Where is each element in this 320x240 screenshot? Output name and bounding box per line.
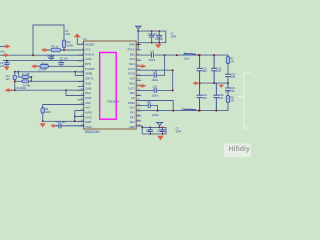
rail row 71.8 — [15, 71, 84, 73]
capacitor C2 to ground (left) — [4, 61, 9, 67]
svg-text:PGNDP: PGNDP — [85, 67, 94, 71]
wire row 75.3 right + series capacitor C18 — [137, 74, 165, 76]
junction x66 row90.2 — [65, 89, 67, 91]
resistor R8 (vertical) — [226, 96, 230, 103]
junction top rail x199.6 — [199, 54, 201, 56]
resistor R5 on row 50 — [51, 48, 61, 52]
svg-text:2R: 2R — [231, 99, 234, 102]
capacitor C15 (in loop) — [149, 31, 154, 43]
junction rail71.8 at x75.3 — [74, 71, 76, 73]
U1 right pin labels — [128, 43, 136, 129]
heatsink rectangle (magenta) inside U1 — [100, 53, 117, 120]
svg-text:104: 104 — [231, 76, 236, 79]
wire row 110.6 right (OUT2) — [137, 110, 229, 112]
svg-text:C19: C19 — [153, 86, 158, 89]
svg-text:BSA: BSA — [85, 91, 90, 95]
junction x31.3 y77 — [30, 76, 32, 78]
port arrow (left) on row 66.3 — [31, 64, 39, 68]
svg-text:IN2B: IN2B — [85, 120, 91, 124]
ripple loop bottom row — [142, 127, 166, 133]
junction row110.6 x157.5 — [157, 110, 159, 112]
junction row55.1 x176.9 — [176, 54, 178, 56]
svg-text:AX1: AX1 — [85, 106, 90, 110]
junction feed at pin row 44.4 — [137, 43, 139, 45]
wire row 105.6 right + series capacitor C20 — [137, 106, 158, 111]
ground arrow below cap loop — [155, 43, 162, 49]
electrolytic capacitor C7b — [22, 80, 29, 83]
svg-text:104: 104 — [203, 70, 208, 73]
U1 left pin stubs — [78, 44, 83, 126]
svg-text:UTAC: UTAC — [85, 115, 92, 119]
svg-text:GD: GD — [131, 96, 135, 100]
svg-text:C4 104: C4 104 — [47, 54, 55, 57]
junction x172.7 row90.4 — [172, 89, 174, 91]
port arrow (left) on row 90.2 — [5, 88, 13, 92]
VCC power arrow (red, above U1 left) — [74, 33, 81, 37]
wire row 90.4 right + series capacitor C19 — [137, 89, 173, 91]
junction dots ripple loop — [149, 127, 163, 135]
junction gnd rail x214.1 — [213, 82, 215, 84]
svg-text:RuGU3: RuGU3 — [85, 52, 94, 56]
svg-text:TA8210AH: TA8210AH — [84, 130, 100, 134]
wire VCC symbol to rail — [137, 29, 139, 31]
capacitor C4 between row55 and rail60 — [49, 55, 54, 61]
svg-text:104: 104 — [217, 70, 222, 73]
electrolytic capacitor C7a — [22, 76, 29, 79]
resistor R7 (vertical) — [226, 57, 230, 64]
junction row50/frame — [63, 49, 65, 51]
svg-text:1UNL: 1UNL — [85, 57, 92, 61]
svg-text:C18: C18 — [153, 71, 158, 74]
junction gnd rail x228 — [227, 82, 229, 84]
svg-text:2200u: 2200u — [152, 79, 159, 82]
junction row110.6 x198.9 — [198, 110, 200, 112]
output filter column x199.6 top: capacitor C21 — [197, 55, 202, 83]
svg-text:ARM: ARM — [129, 125, 135, 129]
wire row 70.2 right with corner — [137, 70, 173, 90]
watermark band — [224, 144, 251, 158]
junction row110.6 x173.2 — [172, 110, 174, 112]
svg-text:BS2: BS2 — [130, 91, 135, 95]
wire C23 to ground rail — [227, 77, 229, 83]
svg-text:UPB8: UPB8 — [85, 72, 92, 76]
output filter column x199.6 bottom: capacitor C24 — [197, 83, 202, 111]
U1 left pin numbers — [81, 43, 84, 127]
capacitor C19 plates — [154, 88, 156, 92]
svg-text:3UNL: 3UNL — [85, 86, 92, 90]
ground arrow below C2 — [4, 66, 10, 71]
port arrow (right-pointing) row 66 — [139, 64, 147, 68]
ground arrow below row 121.3 — [40, 122, 46, 127]
svg-text:10P: 10P — [146, 129, 151, 132]
junction x31.3 row81.3 — [30, 80, 32, 82]
svg-text:104: 104 — [0, 65, 5, 68]
svg-text:104: 104 — [203, 97, 208, 100]
svg-text:C6 104: C6 104 — [60, 57, 68, 60]
resistor R2 (vertical, in frame) — [62, 40, 66, 48]
Zobel column top: corner from rail 55.1 down — [227, 55, 229, 57]
svg-text:NF1B: NF1B — [128, 72, 135, 76]
svg-text:2u 14B: 2u 14B — [22, 73, 30, 76]
svg-text:C9 100uF: C9 100uF — [16, 87, 27, 90]
svg-text:BS1: BS1 — [130, 52, 135, 56]
wire row 66.3 — [39, 65, 85, 67]
wire C7a right to junction — [29, 77, 32, 81]
svg-text:100R: 100R — [45, 111, 51, 114]
wire row 55.1 right (OUT1) — [137, 54, 229, 56]
vertical link x=14.8 — [14, 72, 16, 90]
svg-text:PX2: PX2 — [130, 115, 135, 119]
junction x172.7 row70.2 — [172, 69, 174, 71]
speaker bracket (gray, right edge) — [239, 72, 251, 128]
junction x74.8 row121.3 — [74, 120, 76, 122]
resistor R6 (vertical on link) — [13, 75, 16, 79]
svg-text:OU2: OU2 — [129, 106, 135, 110]
junction frame bottom — [32, 54, 34, 56]
capacitor C16 (in loop) — [157, 31, 162, 43]
wire row 55.4 (IN2 to pin) — [0, 54, 84, 56]
wire R9 to row 121.3 — [42, 113, 44, 121]
Zobel column bottom: capacitor C26 — [226, 83, 231, 90]
wire row 81.3 — [15, 80, 84, 82]
svg-text:100K: 100K — [67, 44, 74, 48]
junction VCC rail top — [137, 30, 139, 32]
svg-text:2200u: 2200u — [152, 114, 159, 117]
svg-text:GN1: GN1 — [129, 57, 135, 61]
capacitor C20 plates — [148, 104, 150, 108]
wire from R2 to row 50 junction — [63, 48, 65, 51]
svg-text:OUT1: OUT1 — [128, 67, 135, 71]
svg-text:104: 104 — [231, 90, 236, 93]
wire bend rail to C7a — [18, 72, 22, 77]
U1 right pin stubs — [136, 44, 141, 126]
wire row 100.5 right with corner — [137, 101, 174, 111]
input port IN2 (left edge) — [3, 53, 10, 57]
junction dots on cap loop — [151, 30, 160, 43]
ground symbol mid rail 83.1 — [218, 83, 224, 88]
ground arrow below ripple loop — [157, 134, 164, 140]
svg-text:C17: C17 — [150, 50, 155, 53]
capacitor C10 (series) on row 125.8 — [57, 124, 85, 128]
junction x14.8 row90.2 — [14, 89, 16, 91]
junction rail71.8 left — [14, 71, 16, 73]
svg-text:PVCC: PVCC — [128, 47, 135, 51]
power cap loop rails — [138, 31, 166, 43]
wire R8 to rail 110.6 — [227, 103, 229, 111]
wire R7 to C23 — [227, 64, 229, 75]
svg-text:NFB2: NFB2 — [128, 101, 135, 105]
svg-text:10R: 10R — [65, 33, 70, 36]
output filter column x214.1 top: capacitor C22 — [212, 55, 217, 83]
capacitor C6 between rail60 and row66 — [59, 61, 64, 67]
wire C26 to R8 — [227, 91, 229, 96]
wire row 90.2 — [12, 89, 84, 91]
port arrow (right-pointing) at left end of rail 83.1 — [193, 81, 199, 85]
ground rail 83.1 (right) — [200, 82, 228, 84]
svg-text:BYB: BYB — [85, 62, 90, 66]
svg-text:AVR: AVR — [85, 101, 90, 105]
wire bend from rail71.8 to row75.3 — [75, 72, 83, 76]
svg-text:10V: 10V — [6, 78, 11, 81]
svg-text:PX1: PX1 — [130, 111, 135, 115]
port arrow (left) on row 50 — [41, 48, 48, 52]
svg-text:AR1: AR1 — [130, 120, 136, 124]
inductor L1 in row 55.1 — [184, 54, 196, 56]
junction row55.1 x198.9 — [198, 54, 200, 56]
VCC power symbol (blue) top middle — [135, 26, 141, 29]
wire VCC arrow to pin row 45 — [77, 37, 83, 44]
svg-text:R4 1k: R4 1k — [41, 62, 48, 65]
op-amp/power-amp IC U1 body — [84, 41, 137, 129]
svg-text:R5 1k: R5 1k — [52, 46, 59, 49]
svg-text:C15 104: C15 104 — [148, 33, 158, 36]
ground rail row 60.1 — [3, 60, 84, 62]
capacitor C27 in ripple loop — [148, 127, 153, 134]
wire VCC symbol to ripple row — [159, 126, 161, 128]
svg-text:U1: U1 — [83, 37, 87, 41]
junction x14.8 row81.3 — [14, 80, 16, 82]
resistor R9 (vertical) — [41, 108, 44, 114]
svg-text:WTB: WTB — [85, 96, 91, 100]
svg-text:2200P: 2200P — [157, 129, 164, 132]
junction on rail 60.1 — [6, 60, 8, 62]
svg-text:MU1: MU1 — [129, 62, 135, 66]
svg-text:VTAC: VTAC — [85, 125, 92, 129]
svg-text:104: 104 — [219, 97, 224, 100]
U1 left pin labels — [85, 43, 95, 129]
junction ripple row x142.2 — [141, 126, 143, 128]
vertical x74.8 to row 121.3 — [74, 117, 76, 122]
capacitor C17 (series in row 55.1) — [152, 53, 154, 57]
svg-text:TA8210A: TA8210A — [107, 99, 119, 103]
port arrow (right-pointing) row 85.8 — [139, 84, 147, 88]
junction gnd rail x199.6 — [199, 82, 201, 84]
wire row 121.3 — [43, 120, 84, 122]
svg-text:AVR2: AVR2 — [85, 111, 92, 115]
svg-text:GUB: GUB — [85, 81, 91, 85]
junction rail71.8 at x18.4 — [17, 71, 19, 73]
svg-text:VCC: VCC — [85, 47, 91, 51]
feedback frame wire top-left — [33, 25, 64, 55]
wire bend x66 to row95.5 — [66, 90, 84, 95]
vertical link x164.6 (row55 to row75.3) — [164, 55, 166, 75]
svg-text:C20: C20 — [147, 101, 152, 104]
svg-text:Hifidiy: Hifidiy — [229, 146, 250, 153]
inductor L2 in row 110.6 — [184, 109, 196, 111]
VCC symbol (blue) above ripple block — [156, 122, 162, 125]
wire row 50 to pin — [48, 49, 84, 51]
junction ripple row x159.6 — [159, 126, 161, 128]
junction x74.8 row116.5 — [74, 116, 76, 118]
svg-text:2200u: 2200u — [152, 94, 159, 97]
U1 right pin numbers — [137, 43, 140, 127]
junction x42.7 row121.3 — [42, 120, 44, 122]
resistor R4 on row 66.3 — [40, 65, 49, 69]
svg-text:104P: 104P — [171, 36, 177, 39]
svg-text:GBYTL: GBYTL — [85, 77, 94, 81]
svg-text:PW0: PW0 — [129, 43, 135, 47]
svg-text:C10 104: C10 104 — [57, 121, 67, 124]
wire tail of IN1 port — [0, 45, 4, 47]
svg-text:IN1: IN1 — [1, 50, 6, 54]
output filter column x216.3 bottom: capacitor C25 — [214, 83, 219, 111]
junction row55.1 x164.6 — [164, 54, 166, 56]
capacitor C28 in ripple loop — [160, 127, 165, 134]
junction top rail x214.1 — [213, 54, 215, 56]
svg-text:OUT2: OUT2 — [128, 86, 135, 90]
junction bottom rail x199.6 — [199, 110, 201, 112]
svg-text:2R: 2R — [231, 60, 234, 63]
wire stub row 110.6 with bend — [75, 111, 84, 117]
port arrow (left) on row 125.8 — [50, 124, 56, 128]
wire row 104.5 with corner — [43, 105, 84, 108]
svg-text:GN2: GN2 — [129, 77, 135, 81]
input port IN1 (top left edge) — [1, 44, 11, 53]
svg-text:C5 1uF: C5 1uF — [39, 69, 47, 72]
svg-text:MU2: MU2 — [129, 81, 135, 85]
junction bottom rail x216.3 — [215, 110, 217, 112]
svg-text:2200uF: 2200uF — [155, 38, 164, 41]
svg-text:104P: 104P — [176, 130, 182, 133]
svg-text:2200u: 2200u — [149, 59, 156, 62]
wire row 116.5 stub — [75, 116, 84, 118]
capacitor C18 plates — [154, 73, 156, 77]
svg-text:MODE1: MODE1 — [85, 43, 95, 47]
svg-text:10uH: 10uH — [184, 58, 190, 61]
ripple block wire from last right pin — [137, 126, 167, 128]
vertical feed x138.2 to pins — [136, 43, 138, 50]
capacitor C23 — [226, 74, 231, 77]
